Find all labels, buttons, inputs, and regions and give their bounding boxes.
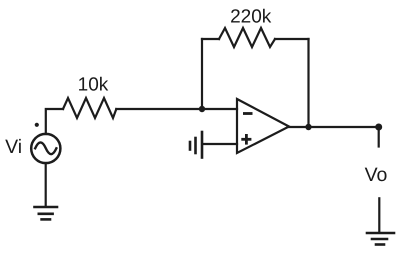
wire: Vi bottom to ground bbox=[45, 163, 47, 206]
resistor R1 10k zigzag bbox=[63, 98, 116, 118]
node A: inverting input junction dot bbox=[199, 106, 205, 112]
svg-text:Vo: Vo bbox=[365, 164, 388, 186]
wire: 10k resistor to inverting node bbox=[116, 108, 202, 110]
voltage source Vi circle bbox=[31, 134, 60, 163]
voltage source sine wave bbox=[35, 142, 56, 154]
op-amp minus sign bbox=[243, 112, 253, 115]
node C: Vo terminal dot bbox=[375, 124, 382, 131]
wire: non-inverting input to ground bbox=[203, 143, 237, 145]
svg-text:10k: 10k bbox=[78, 75, 109, 96]
node B: output/feedback junction dot bbox=[305, 124, 311, 130]
wire: Vi top to 10k resistor (corner) bbox=[46, 109, 63, 134]
wire: top left horizontal to 220k bbox=[202, 38, 219, 40]
wire: feedback left vertical (node up to 220k) bbox=[201, 39, 203, 109]
wire: 220k to feedback right corner bbox=[275, 38, 309, 40]
ground symbol (output) bbox=[367, 233, 394, 245]
op-amp U1 triangle bbox=[237, 99, 289, 153]
wire: feedback right vertical down to output bbox=[307, 39, 309, 127]
wire: op-amp output to right node bbox=[289, 126, 379, 128]
svg-text:220k: 220k bbox=[230, 6, 272, 27]
wire: Vo stub to output ground bbox=[378, 198, 380, 232]
ground symbol (non-inverting, rotated left) bbox=[190, 132, 202, 158]
polarity dot near Vi source bbox=[35, 123, 39, 127]
wire: inverting node to op-amp minus input bbox=[202, 108, 237, 110]
op-amp plus sign bbox=[241, 134, 251, 145]
ground symbol (source) bbox=[35, 207, 58, 219]
svg-text:Vi: Vi bbox=[5, 136, 22, 158]
wire: output stub down from right node bbox=[378, 127, 380, 147]
resistor R2 220k zigzag bbox=[219, 28, 275, 47]
